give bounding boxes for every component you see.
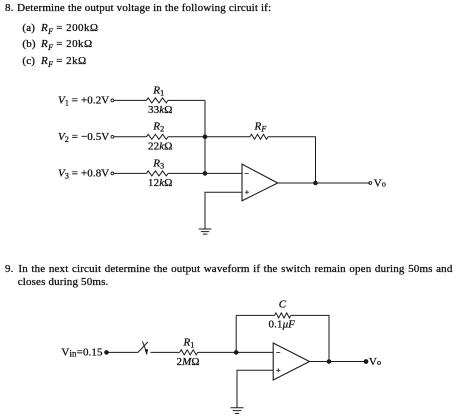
op-amp U2 (273, 343, 309, 380)
svg-text:2MΩ: 2MΩ (177, 356, 200, 368)
resistor RF (250, 134, 268, 139)
terminal V1 (111, 99, 114, 102)
switch S1 arrow (142, 341, 146, 351)
op-amp U1 (242, 164, 278, 201)
wire op-amp 2 output (310, 361, 367, 363)
ground symbol circuit 1 (199, 229, 212, 234)
terminal Vo circuit 2 (364, 360, 368, 364)
item (c) (22, 55, 35, 68)
wire V3 to R3 (114, 172, 146, 174)
wire cap branch top left (236, 314, 274, 316)
svg-text:V3 = +0.8V: V3 = +0.8V (58, 168, 109, 181)
resistor R1 (146, 98, 168, 103)
wire R1 to op-amp (198, 351, 274, 353)
item (a) (22, 22, 35, 35)
node output junction circuit 2 (327, 360, 331, 364)
wire R3 to op-amp (168, 172, 242, 174)
capacitor C (drawn as zigzag) (275, 313, 291, 318)
op-amp U1 minus pin (245, 172, 249, 174)
wire switch to R1 (151, 351, 180, 353)
svg-text:V1 = +0.2V: V1 = +0.2V (58, 95, 109, 108)
svg-text:R2: R2 (152, 121, 164, 134)
wire bus vertical (204, 100, 206, 173)
resistor R2 (146, 134, 168, 139)
wire R2 to bus (168, 136, 205, 138)
node junction R3/bus (203, 172, 207, 176)
svg-text:R3: R3 (152, 157, 164, 170)
svg-text:RF: RF (254, 121, 267, 134)
wire V1 to R1 (114, 99, 146, 101)
wire RF to output vertical (268, 137, 316, 183)
svg-text:V2 = −0.5V: V2 = −0.5V (58, 131, 109, 144)
svg-text:Vin=0.15: Vin=0.15 (61, 347, 103, 359)
wire V2 to R2 (114, 136, 146, 138)
op-amp U2 plus pin (276, 368, 280, 372)
wire R1 to bus (168, 99, 205, 101)
wire plus input to ground (205, 192, 242, 229)
op-amp U2 minus pin (276, 352, 280, 354)
terminal Vo circuit 1 (369, 182, 372, 185)
svg-text:0.1μF: 0.1μF (269, 319, 296, 331)
wire Vin to switch (107, 351, 139, 353)
wire cap branch top right and right vertical (291, 315, 329, 361)
switch S1 blade (138, 342, 148, 352)
terminal Vin (105, 351, 109, 355)
svg-text:22kΩ: 22kΩ (148, 141, 172, 153)
ground symbol circuit 2 (231, 408, 244, 414)
svg-text:33kΩ: 33kΩ (148, 104, 172, 116)
svg-text:Vo: Vo (374, 177, 386, 189)
wire op-amp output (278, 182, 370, 184)
wire cap branch left vertical (235, 315, 237, 352)
resistor R3 (146, 171, 168, 176)
svg-text:C: C (279, 299, 287, 311)
op-amp U1 plus pin (245, 190, 249, 194)
problem 8 heading (5, 2, 14, 15)
terminal V3 (111, 172, 114, 175)
node junction R1/cap (234, 351, 238, 355)
svg-text:R1: R1 (152, 84, 164, 97)
svg-text:R1: R1 (183, 337, 195, 350)
svg-text:Vo: Vo (369, 356, 381, 368)
wire RF feedback top (205, 136, 250, 138)
item (b) (22, 38, 35, 51)
resistor R1 (circuit 2) (180, 350, 198, 355)
terminal V2 (111, 135, 114, 138)
wire plus input to ground (circuit 2) (237, 370, 273, 408)
svg-text:12kΩ: 12kΩ (148, 177, 172, 189)
node output junction (314, 181, 318, 185)
node junction R2/bus (203, 135, 207, 139)
problem 9 text (5, 263, 14, 276)
